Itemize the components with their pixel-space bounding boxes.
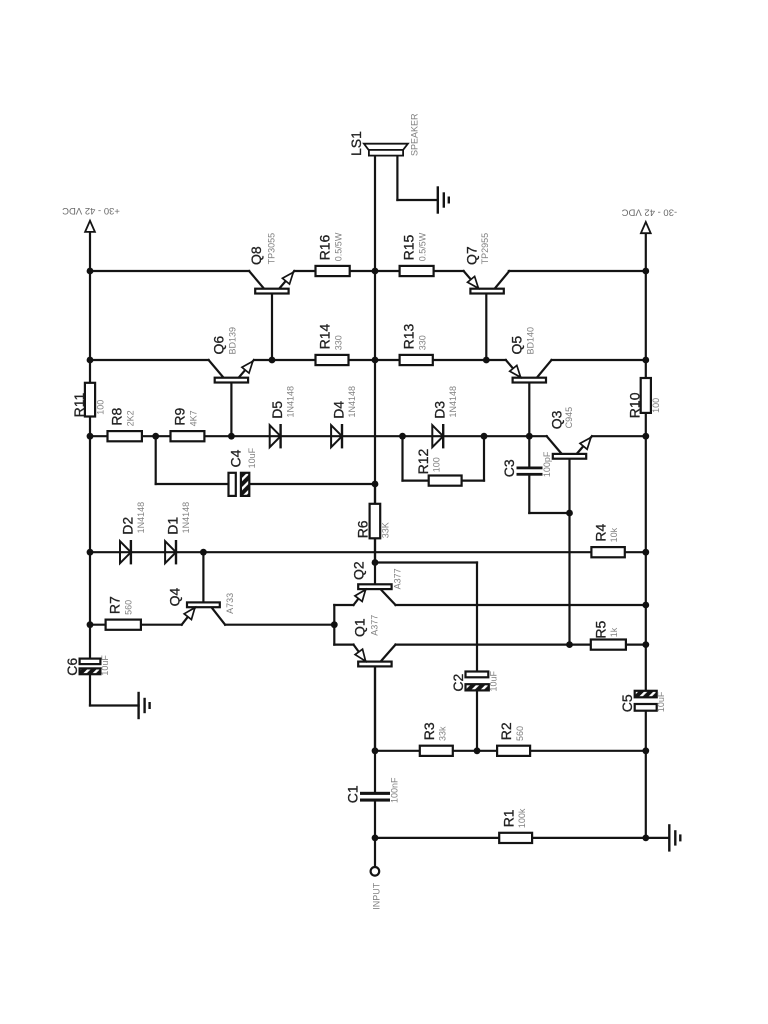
svg-text:BD140: BD140 (526, 327, 536, 355)
svg-text:330: 330 (417, 335, 427, 350)
svg-text:1N4148: 1N4148 (347, 386, 357, 418)
junction right rail / R5 (642, 641, 649, 648)
resistor R6 (vertical) (370, 504, 381, 539)
junction output / R14-R13 (372, 357, 379, 364)
svg-text:R10: R10 (627, 392, 643, 418)
svg-text:D2: D2 (119, 517, 135, 535)
junction right rail / Q2 collector (642, 602, 649, 609)
wire top line y271 middle (294, 270, 463, 272)
svg-text:100k: 100k (517, 808, 527, 828)
wire top rail line y271 left (90, 270, 249, 272)
resistor R13 (400, 355, 433, 365)
svg-text:1N4148: 1N4148 (136, 502, 146, 534)
svg-text:R8: R8 (109, 407, 125, 425)
junction right rail / Q5 (642, 357, 649, 364)
svg-text:100nF: 100nF (390, 777, 400, 803)
wire bias line y436 right (592, 435, 646, 437)
transistor Q8 (249, 271, 264, 289)
svg-text:R12: R12 (415, 449, 431, 475)
ground bottom right (668, 825, 670, 850)
resistor R9 (171, 431, 205, 441)
svg-text:330: 330 (333, 335, 343, 350)
junction emitters / Q4 (331, 621, 338, 628)
capacitor C1 (360, 792, 390, 795)
ground near speaker (437, 188, 439, 213)
svg-text:A733: A733 (225, 593, 235, 614)
diode D3 (432, 425, 443, 447)
junction left rail / R8 line (87, 433, 94, 440)
wire diode line y552 (90, 551, 646, 553)
svg-text:R14: R14 (317, 324, 333, 350)
resistor R1 (499, 833, 532, 843)
svg-text:0.5/5W: 0.5/5W (417, 232, 427, 261)
junction output / C4-R6 (372, 481, 379, 488)
transistor Q5 (506, 360, 521, 378)
junction D3-R12 left (399, 433, 406, 440)
junction Q7 base (483, 357, 490, 364)
svg-text:C6: C6 (64, 658, 80, 676)
svg-text:10uF: 10uF (100, 655, 110, 676)
resistor R16 (316, 266, 350, 276)
wire R1 line y838 (375, 837, 646, 839)
power arrow +30-42 VDC (85, 221, 95, 232)
svg-text:A377: A377 (392, 568, 402, 589)
wire R3 line y751 (375, 750, 646, 752)
svg-text:LS1: LS1 (348, 131, 364, 156)
svg-text:R3: R3 (421, 722, 437, 740)
junction left rail / R7 line (87, 621, 94, 628)
junction Q1 base / R3 line (372, 747, 379, 754)
wire R6 column (374, 484, 376, 563)
svg-text:-30 - 42 VDC: -30 - 42 VDC (622, 206, 678, 217)
power arrow -30-42 VDC (641, 222, 651, 233)
wire -V right rail vertical upper (645, 233, 647, 691)
svg-text:D4: D4 (330, 401, 346, 419)
svg-text:10uF: 10uF (656, 691, 666, 712)
svg-text:Q8: Q8 (248, 246, 264, 265)
junction left rail / Q8 line (87, 268, 94, 275)
svg-text:100pF: 100pF (542, 451, 552, 477)
wire top line y271 right (509, 270, 646, 272)
wire output column (speaker to R6/Q2 base) (374, 156, 376, 563)
junction Q3 base / C3 (566, 510, 573, 517)
svg-text:BD139: BD139 (228, 327, 238, 355)
wire Q1 emitter corner (334, 643, 353, 645)
svg-text:R2: R2 (498, 722, 514, 740)
svg-text:R6: R6 (354, 520, 370, 538)
svg-text:2K2: 2K2 (125, 410, 135, 426)
svg-text:100: 100 (431, 457, 441, 472)
capacitor C5 (635, 691, 657, 698)
svg-text:C4: C4 (227, 449, 243, 467)
svg-text:Q2: Q2 (351, 561, 367, 580)
junction output / R16-R15 (372, 268, 379, 275)
diode D5 (270, 425, 281, 447)
junction C1 / R1 line (372, 835, 379, 842)
wire Q2 base link (375, 561, 477, 563)
wire Q2 emitter corner (334, 604, 353, 606)
junction left rail / Q6 line (87, 357, 94, 364)
svg-text:TP2955: TP2955 (480, 233, 490, 265)
wire D1 node down to Q4 base (202, 552, 204, 602)
wire Q3 base node down to R5 line (568, 513, 570, 645)
svg-text:C5: C5 (619, 694, 635, 712)
junction right rail / R10-Q3 (642, 433, 649, 440)
diode D4 (331, 425, 342, 447)
wire C3 bottom link (528, 476, 530, 513)
diode D2 (120, 541, 131, 563)
junction left rail / D2 line (87, 549, 94, 556)
svg-text:10k: 10k (609, 527, 619, 542)
svg-text:R5: R5 (592, 620, 608, 638)
transistor Q6 (209, 360, 224, 378)
wire C1 column (374, 751, 376, 792)
junction Q2 base node (372, 559, 379, 566)
junction right rail / R1-ground (642, 835, 649, 842)
svg-text:Q5: Q5 (508, 336, 524, 355)
resistor R7 (106, 620, 141, 630)
svg-text:1N4148: 1N4148 (181, 502, 191, 534)
wire Q7 base (485, 293, 487, 360)
svg-text:A377: A377 (369, 615, 379, 636)
svg-text:4K7: 4K7 (188, 410, 198, 426)
junction D3-R12 right (481, 433, 488, 440)
junction right rail / R2 (642, 747, 649, 754)
svg-text:C2: C2 (450, 673, 466, 691)
junction D1 / Q4 base (200, 549, 207, 556)
wire C3 top link (528, 436, 530, 466)
resistor R15 (400, 266, 434, 276)
svg-text:10uF: 10uF (488, 670, 498, 691)
resistor R14 (316, 355, 349, 365)
wire Q6 base (230, 383, 232, 437)
wire Q1 collector / R5 line y644 (396, 643, 646, 645)
resistor R10 (vertical) (641, 378, 651, 413)
svg-text:C3: C3 (501, 459, 517, 477)
wire emitter vertical (333, 605, 335, 645)
svg-text:R9: R9 (172, 407, 188, 425)
resistor R4 (591, 547, 624, 557)
wire Q1 base down (374, 667, 376, 751)
svg-text:Q7: Q7 (463, 246, 479, 265)
svg-text:560: 560 (123, 600, 133, 615)
junction C2 / R3-R2 (474, 747, 481, 754)
wire Q4 collector to emitters (225, 624, 334, 626)
svg-text:R7: R7 (107, 596, 123, 614)
svg-text:100: 100 (95, 400, 105, 415)
wire C2 bottom to R3 line (476, 690, 478, 750)
svg-text:R13: R13 (401, 324, 417, 350)
resistor R3 (420, 746, 453, 756)
svg-text:SPEAKER: SPEAKER (410, 113, 420, 156)
svg-text:+30 - 42 VDC: +30 - 42 VDC (62, 205, 120, 216)
svg-text:560: 560 (515, 726, 525, 741)
wire ground stem bottom right (646, 837, 670, 839)
wire bias line y436 left (90, 435, 547, 437)
svg-text:D1: D1 (164, 517, 180, 535)
wire R12 loop left (401, 436, 403, 480)
transistor Q4 (182, 607, 196, 625)
svg-text:R16: R16 (317, 235, 333, 261)
transistor Q3 (547, 436, 562, 454)
svg-text:0.5/5W: 0.5/5W (333, 232, 343, 261)
svg-text:Q4: Q4 (166, 588, 182, 607)
svg-text:33k: 33k (438, 726, 448, 741)
wire R7 line (90, 624, 182, 626)
capacitor C2 (466, 672, 489, 678)
wire line y360 right (552, 359, 646, 361)
svg-text:Q1: Q1 (352, 618, 368, 637)
junction Q8 base (269, 357, 276, 364)
junction R8-R9 / C4 (152, 433, 159, 440)
svg-text:R4: R4 (593, 523, 609, 541)
svg-text:INPUT: INPUT (371, 882, 381, 910)
wire Q8 base (271, 293, 273, 360)
transistor Q7 (464, 271, 479, 289)
wire Q5 base (528, 383, 530, 437)
capacitor C4 (229, 473, 236, 496)
junction Q5 base / C3 (526, 433, 533, 440)
wire Q2 collector line y605 (396, 604, 646, 606)
wire C4 right to output node (249, 483, 375, 485)
svg-text:Q6: Q6 (211, 336, 227, 355)
diode D1 (165, 541, 176, 563)
svg-text:1N4148: 1N4148 (286, 386, 296, 418)
svg-text:D3: D3 (432, 401, 448, 419)
wire R12 loop right (483, 436, 485, 480)
svg-text:D5: D5 (269, 401, 285, 419)
svg-text:C945: C945 (564, 407, 574, 429)
junction right rail / Q7 (642, 268, 649, 275)
resistor R2 (497, 746, 530, 756)
wire line y360 left (90, 359, 209, 361)
svg-text:1N4148: 1N4148 (448, 386, 458, 418)
wire speaker right terminal (396, 156, 398, 201)
junction Q3 net / R5 line (566, 641, 573, 648)
svg-text:R1: R1 (500, 809, 516, 827)
svg-text:33K: 33K (381, 522, 391, 538)
svg-text:10uF: 10uF (247, 447, 257, 468)
speaker LS1 (364, 144, 408, 150)
svg-text:Q3: Q3 (549, 410, 565, 429)
junction Q6 base / bias line (228, 433, 235, 440)
capacitor C6 (80, 659, 101, 665)
transistor Q1 (374, 666, 376, 750)
junction right rail / R4 (642, 549, 649, 556)
svg-text:R15: R15 (401, 235, 417, 261)
input terminal (371, 867, 380, 876)
svg-text:1k: 1k (609, 627, 619, 637)
wire left rail to ground stem (90, 704, 139, 706)
resistor R11 (vertical) (85, 383, 95, 417)
ground near C6 (137, 693, 139, 718)
capacitor C3 (517, 467, 543, 470)
transistor Q2 (374, 563, 376, 585)
wire line y360 middle (254, 359, 506, 361)
resistor R12 (429, 476, 462, 486)
resistor R5 (591, 640, 626, 650)
resistor R8 (108, 431, 142, 441)
svg-text:R11: R11 (71, 393, 87, 418)
wire -V right rail vertical lower (645, 711, 647, 838)
svg-text:TP3055: TP3055 (266, 233, 276, 265)
svg-text:C1: C1 (345, 785, 361, 803)
wire R8-R9 node down to C4 (155, 436, 157, 484)
svg-text:100: 100 (651, 398, 661, 413)
wire +V left rail vertical (89, 232, 91, 659)
wire Q3 base (568, 458, 570, 513)
